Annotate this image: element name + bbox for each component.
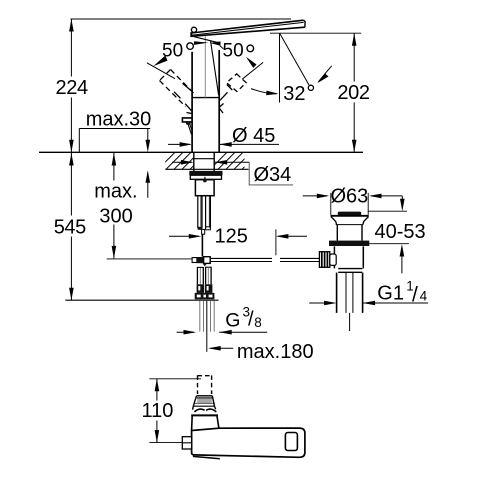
waste plug disk — [338, 212, 362, 216]
svg-text:max.: max. — [94, 181, 137, 203]
40-53 top arrow — [401, 196, 403, 201]
max180 rod line — [206, 301, 208, 352]
waste tailpipe — [336, 273, 338, 313]
G3/8 arrow left — [177, 331, 194, 333]
faucet body seam — [192, 97, 219, 99]
G1 1/4 arrow right + underline — [363, 302, 428, 304]
max.30 left tick — [78, 129, 80, 153]
label 224 — [53, 77, 89, 98]
svg-text:110: 110 — [142, 400, 174, 422]
svg-text:40-53: 40-53 — [375, 221, 426, 243]
waste flange top — [331, 215, 369, 217]
svg-text:/: / — [412, 284, 418, 307]
body left tab — [182, 437, 191, 449]
dimension 224 line — [70, 19, 72, 152]
spout pivot circle — [191, 27, 196, 32]
faucet centerline — [204, 36, 206, 97]
waste bottom flange — [338, 268, 362, 270]
waste body — [333, 246, 335, 268]
svg-text:Ø63: Ø63 — [331, 185, 369, 207]
label 202 — [334, 82, 373, 103]
arrow 110 top — [155, 379, 160, 392]
spout blade top edge — [191, 20, 303, 33]
arrow 545 bottom — [69, 288, 74, 301]
body bottom lip — [193, 456, 220, 458]
G3/8 arrow right + underline — [219, 331, 267, 333]
hose nut right — [205, 284, 213, 293]
svg-text:202: 202 — [337, 82, 369, 104]
svg-text:300: 300 — [99, 206, 132, 228]
top reference line (224 upper extent) — [71, 18, 292, 20]
horizontal rod segment 1 — [210, 257, 272, 259]
washer 2 — [190, 175, 221, 179]
svg-text:Ø 45: Ø 45 — [232, 125, 275, 147]
svg-text:32: 32 — [283, 83, 305, 105]
arrow 202 top — [352, 33, 357, 46]
hose nut left — [197, 284, 205, 293]
svg-text:545: 545 — [54, 217, 86, 239]
label 110 — [140, 401, 175, 421]
arrow max.30 down — [146, 140, 151, 153]
dimension 125 right arrow — [278, 235, 307, 237]
countertop hatch right — [210, 152, 259, 169]
body window right — [285, 433, 297, 451]
arrow 545 top — [69, 153, 74, 166]
pipe end caps — [198, 227, 202, 230]
bottom view: 110 top extension — [149, 378, 201, 380]
bottom view: dashed spout end — [198, 375, 212, 394]
washer 1 dark — [189, 171, 222, 175]
neck X curves — [194, 409, 204, 412]
spout blade left cap — [190, 32, 192, 37]
50deg sweep arc — [251, 89, 277, 94]
shank left wall — [193, 152, 195, 171]
max.180 arrow — [210, 347, 233, 349]
32deg stream line — [280, 34, 309, 86]
pop-up rod — [201, 234, 203, 256]
pop-up rod stub — [202, 229, 205, 234]
flare to body — [191, 415, 194, 430]
125 break extension line — [275, 229, 277, 255]
dimension max.300 line — [113, 153, 115, 258]
40-53 bottom arrow — [401, 256, 403, 273]
50deg right arrow — [246, 57, 257, 68]
50deg right leader line — [242, 62, 263, 79]
spout blade inner line — [191, 22, 303, 35]
horizontal rod segment 2 — [280, 257, 319, 259]
supply pipe left — [197, 196, 199, 229]
countertop top line — [39, 151, 363, 153]
label 545 — [51, 216, 88, 237]
hose right — [205, 267, 207, 285]
50deg right center arrow — [210, 41, 221, 45]
arrow max300 top — [112, 153, 117, 166]
32deg curved arrow — [318, 66, 331, 82]
waste knurled nut — [319, 252, 329, 268]
Ø34 arrow left — [172, 161, 192, 163]
dashed handle left — [160, 70, 197, 107]
arrow max300 bottom — [112, 246, 117, 259]
svg-text:8: 8 — [254, 315, 262, 330]
hose left — [196, 267, 198, 284]
screw head — [203, 180, 207, 183]
svg-text:125: 125 — [215, 226, 248, 248]
spout arm top edge — [194, 37, 221, 44]
neck wide line — [191, 414, 218, 416]
spout blade right cap — [304, 20, 306, 27]
dimension 110 line — [156, 379, 158, 443]
side outlet tab — [182, 118, 192, 122]
hose base bar — [195, 293, 215, 299]
50deg left leader line — [147, 63, 175, 79]
Ø45 arrow right + underline — [219, 143, 279, 145]
label max. 300 — [91, 181, 141, 225]
shank right wall — [213, 152, 215, 171]
arrow 224 top — [69, 19, 74, 32]
dimension 202 top extension — [270, 32, 361, 34]
svg-text:G: G — [225, 309, 240, 331]
waste neck — [336, 225, 338, 241]
waste flange bottom — [336, 224, 363, 226]
cross fitting dark mid — [197, 257, 204, 263]
Ø34 arrow right — [215, 161, 250, 163]
svg-text:G1: G1 — [377, 283, 404, 305]
G1 1/4 arrow left — [309, 302, 334, 304]
50deg left arrow — [153, 56, 167, 67]
svg-text:/: / — [248, 309, 254, 331]
max.30 arrow line — [147, 129, 149, 141]
countertop hatch left — [158, 152, 207, 169]
dimension 125 left arrow — [169, 235, 199, 237]
faucet neck slant line — [211, 41, 219, 96]
Ø45 arrow left — [168, 143, 190, 145]
arrow 224 bottom — [69, 140, 74, 153]
Ø63 extension right — [367, 193, 369, 215]
cross fitting nut — [192, 258, 197, 263]
svg-text:max.30: max.30 — [86, 109, 152, 131]
Ø63 extension left — [330, 193, 332, 215]
waste: Ø63 arrow right — [371, 195, 402, 197]
faucet body left edge — [191, 52, 193, 153]
110 bottom extension — [149, 442, 182, 444]
cross fitting square — [204, 257, 211, 264]
neck mid line — [194, 402, 215, 404]
40-53 bottom extension — [369, 243, 409, 245]
cross fitting lower tip — [203, 264, 207, 267]
svg-text:max.180: max.180 — [237, 341, 314, 363]
dimension 202 line — [353, 33, 355, 152]
waste inlet connector — [330, 254, 336, 265]
pipe inner lines — [200, 196, 202, 227]
50deg left center arrow — [194, 41, 208, 45]
faucet body right edge — [218, 50, 220, 152]
dashed handle right — [227, 74, 247, 92]
arrow 202 bottom — [352, 140, 357, 153]
dimension 545 line — [70, 153, 72, 300]
side outlet wedge — [186, 123, 191, 125]
supply pipe right — [205, 196, 207, 229]
svg-text:4: 4 — [420, 289, 428, 304]
arrow max.30 up (below counter) — [147, 182, 149, 198]
bottom reference line (545 end) — [65, 299, 218, 301]
svg-text:224: 224 — [56, 77, 88, 99]
bottom view: main body — [192, 428, 305, 457]
neck gray band — [197, 399, 212, 403]
waste gasket — [329, 241, 369, 246]
countertop bottom line — [165, 168, 248, 170]
bottom view: neck top line — [197, 395, 213, 397]
32deg vertical reference — [279, 33, 281, 102]
waste: Ø63 arrow left — [303, 195, 327, 197]
neck second line — [197, 397, 212, 399]
svg-text:50: 50 — [223, 41, 244, 62]
arrow 110 bottom — [155, 430, 160, 443]
neck sides — [193, 396, 196, 406]
waste flange sides — [331, 217, 369, 225]
screw stem — [204, 177, 206, 180]
mounting nut block — [195, 180, 214, 196]
max300 bottom tick line — [107, 258, 193, 260]
svg-text:Ø34: Ø34 — [254, 164, 292, 186]
spout blade bottom edge — [191, 27, 305, 36]
hose tails gray — [200, 301, 214, 332]
40-53 top extension — [368, 210, 407, 212]
leader step to Ø34 — [249, 162, 293, 185]
